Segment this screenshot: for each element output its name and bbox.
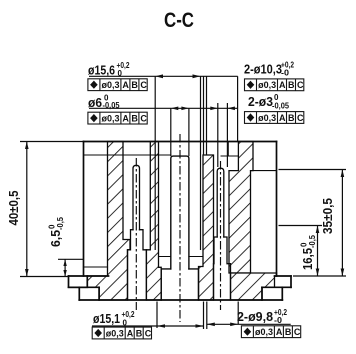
flange step box2 left: [78, 287, 80, 300]
ext dia9.8 right: [237, 302, 239, 325]
callout dia15.6 text: [88, 61, 130, 78]
svg-text:A: A: [122, 114, 129, 124]
svg-text:C: C: [145, 328, 152, 338]
svg-text:ø15,6: ø15,6: [88, 63, 115, 78]
dim dia15.1 line: [92, 325, 204, 327]
svg-text:C: C: [140, 114, 147, 124]
svg-text:ø0,3: ø0,3: [102, 80, 120, 90]
FCF frame top-left 1: [88, 79, 147, 91]
ext dia15.1 right pair: [203, 302, 205, 330]
centerline tube axis: [179, 134, 181, 322]
body right edge: [276, 142, 278, 277]
arrows dim 40: [25, 142, 29, 150]
dim 35 extension top: [279, 169, 347, 171]
mid-right shelf line: [221, 155, 238, 157]
svg-text:C: C: [297, 113, 304, 123]
dim 40 extension top: [20, 141, 84, 143]
dim 40 line: [26, 142, 28, 277]
svg-text:A: A: [279, 113, 286, 123]
leader row dia15.6: [89, 75, 238, 77]
thin extension / leader lines: [20, 76, 346, 329]
arrows dim 6.5: [63, 259, 66, 266]
svg-text:ø0,3: ø0,3: [258, 113, 276, 123]
FCF frame top-right 2: [245, 112, 305, 124]
svg-text:-0,05: -0,05: [103, 101, 121, 110]
arrows dim 16.5: [316, 226, 320, 234]
svg-text:-0,5: -0,5: [56, 216, 65, 230]
svg-text:-0,5: -0,5: [308, 234, 317, 248]
hatch left wall: [87, 142, 130, 301]
left pin step: [128, 230, 134, 300]
body left edge: [83, 142, 85, 277]
svg-text:0: 0: [118, 69, 123, 78]
svg-text:40±0,5: 40±0,5: [6, 191, 21, 226]
left pin: [133, 165, 140, 229]
left shelf line: [84, 154, 171, 156]
svg-text:A: A: [276, 327, 283, 337]
flange step box2 right: [261, 287, 263, 300]
callout dia6 text: [88, 94, 120, 110]
part bottom line: [79, 299, 282, 301]
svg-text:2-ø10,3: 2-ø10,3: [244, 62, 282, 77]
svg-text:ø0,3: ø0,3: [255, 327, 273, 337]
FCF frame top-left 2: [88, 112, 147, 124]
callout dia15.1 text: [93, 310, 135, 328]
dim 40 extension bottom: [20, 276, 69, 278]
hatch right wall: [229, 142, 253, 274]
svg-text:A: A: [122, 80, 129, 90]
central tube: [171, 156, 189, 269]
svg-text:A: A: [279, 80, 286, 90]
right pin: [217, 168, 224, 237]
center lines: [136, 134, 220, 322]
hatch center-right column: [199, 155, 214, 300]
hatch right bottom band: [231, 273, 277, 300]
dim 35 line: [341, 170, 343, 277]
svg-text:6,5: 6,5: [48, 230, 63, 247]
svg-text:B: B: [131, 80, 138, 90]
dim 6.5 line: [64, 259, 66, 276]
flange top line left: [69, 275, 109, 277]
dim 6.5 extension: [58, 258, 84, 260]
left slot floor: [84, 266, 108, 268]
FCF frame bottom-right: [241, 326, 301, 338]
right pin step: [214, 237, 218, 300]
svg-text:ø15,1: ø15,1: [93, 311, 120, 326]
leader row dia6: [89, 107, 238, 109]
ext dia15.1 left: [156, 302, 158, 329]
svg-text:-0,05: -0,05: [272, 102, 290, 111]
arrows dim 35: [341, 170, 345, 178]
tube flare: [161, 269, 171, 300]
arrowheads: [25, 74, 344, 327]
svg-text:B: B: [285, 327, 292, 337]
svg-text:C: C: [297, 80, 304, 90]
svg-text:-0: -0: [274, 316, 283, 325]
svg-text:16,5: 16,5: [300, 248, 315, 270]
ext dia10.3 pair: [203, 76, 205, 155]
ext dia15.6 right: [200, 76, 202, 250]
centerline left pin: [135, 158, 137, 310]
mid-right vertical edge: [227, 142, 229, 157]
dim 16.5 extension: [279, 225, 323, 227]
arrows dia15.1: [157, 324, 165, 328]
svg-text:C-C: C-C: [164, 9, 194, 32]
svg-text:ø0,3: ø0,3: [102, 114, 120, 124]
leader terminator right: [237, 76, 239, 141]
arrows dia3 outside: [210, 107, 218, 111]
svg-text:C: C: [294, 327, 301, 337]
arrows dia6: [171, 107, 179, 111]
ext dia3 left: [217, 103, 219, 167]
svg-text:A: A: [127, 328, 134, 338]
flange step box1 right: [290, 276, 292, 287]
callout 2-dia9.8 text: [237, 308, 287, 325]
svg-text:2-ø9,8: 2-ø9,8: [237, 309, 273, 324]
arrows dia9.8: [207, 323, 215, 327]
flange step box1 left: [69, 276, 88, 287]
svg-text:C: C: [140, 80, 147, 90]
dim 35 extension bottom: [293, 275, 346, 277]
svg-text:35±0,5: 35±0,5: [320, 198, 335, 234]
svg-text:0: 0: [123, 319, 128, 328]
svg-text:-0: -0: [281, 69, 290, 78]
ext dia15.6 left: [154, 76, 156, 250]
dim text 6.5: [48, 216, 66, 247]
svg-text:B: B: [288, 80, 295, 90]
dim text 16.5: [300, 234, 318, 270]
hatch center-left column: [146, 142, 161, 301]
cavity notch right: [189, 256, 203, 258]
centerline right pin: [220, 161, 222, 310]
arrows dia15.6: [155, 74, 163, 78]
ext dia6 right: [188, 108, 190, 156]
svg-text:B: B: [131, 114, 138, 124]
cavity notch left: [159, 256, 171, 258]
svg-text:B: B: [288, 113, 295, 123]
svg-text:ø6: ø6: [88, 95, 102, 110]
dim 16.5 line: [317, 226, 319, 277]
ext dia3 right: [226, 103, 228, 167]
flange top line right: [275, 275, 292, 277]
FCF frame bottom-left: [92, 327, 151, 339]
svg-text:ø0,3: ø0,3: [258, 80, 276, 90]
right slot floor: [251, 272, 277, 274]
svg-text:ø0,3: ø0,3: [106, 328, 124, 338]
FCF frame top-right 1: [245, 79, 305, 91]
callout 2-dia10.3 text: [244, 61, 294, 78]
right shoulder line: [251, 170, 277, 172]
dim dia9.8 line: [207, 323, 291, 325]
svg-text:B: B: [136, 328, 143, 338]
svg-text:2-ø3: 2-ø3: [248, 94, 273, 109]
ext dia6 left: [170, 108, 172, 156]
callout 2-dia3 text: [248, 93, 290, 111]
body top edge: [84, 141, 277, 143]
